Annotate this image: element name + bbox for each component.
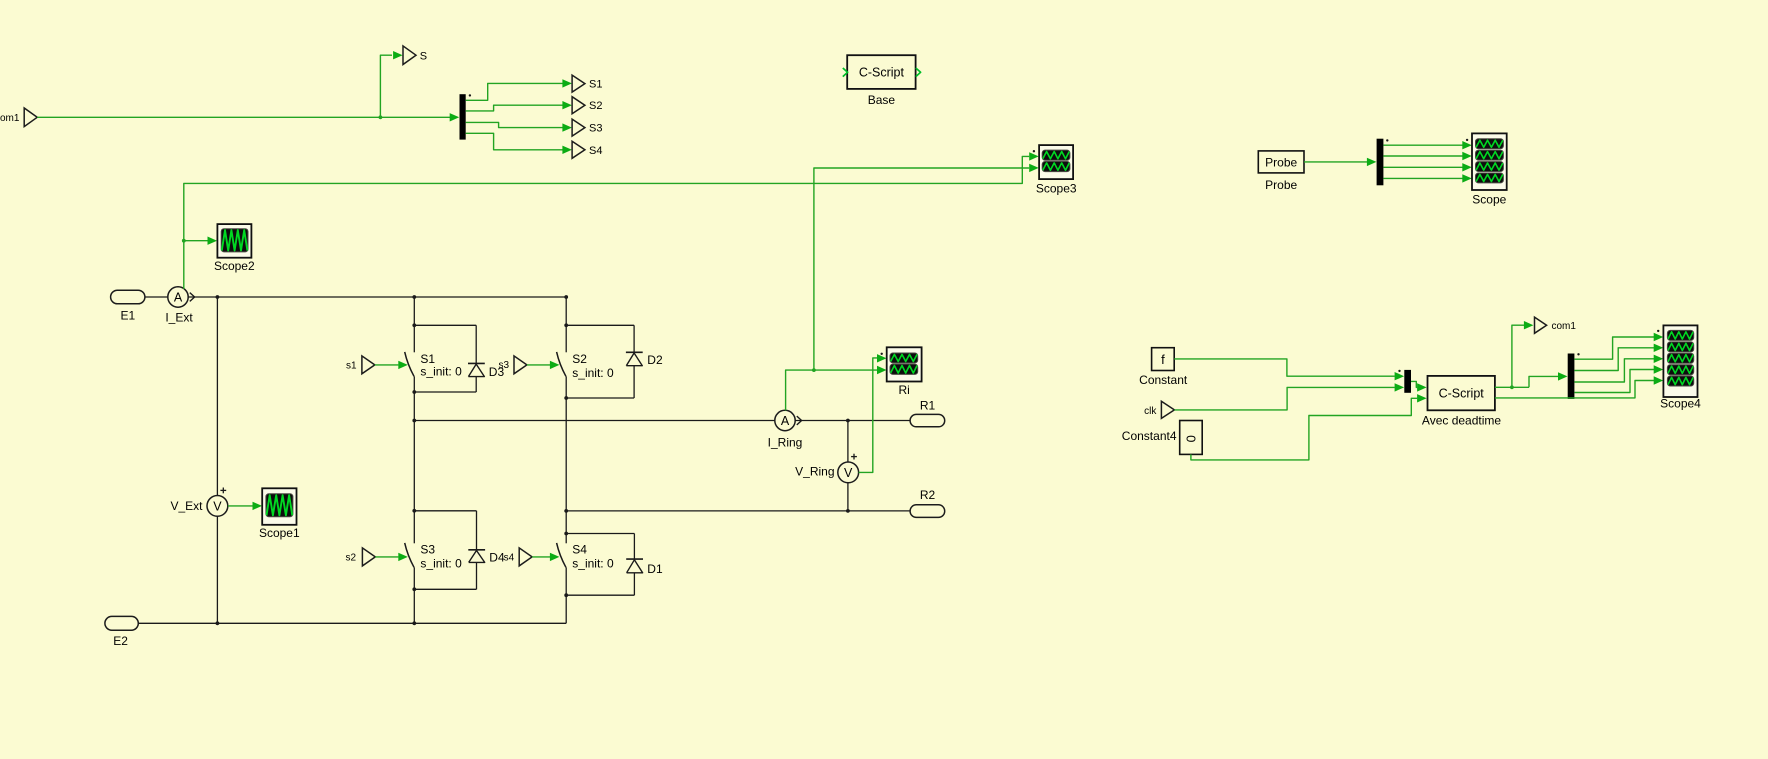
wire mux to C-Script xyxy=(1411,381,1427,391)
svg-text:D1: D1 xyxy=(647,562,663,576)
signal wire I_Ext up xyxy=(183,241,185,289)
node I_Ext signal junction xyxy=(182,239,186,243)
output port S1 xyxy=(572,75,602,92)
wire S2 bottom to R2 node xyxy=(565,398,567,534)
svg-text:D2: D2 xyxy=(647,353,663,367)
svg-text:V: V xyxy=(844,466,853,480)
scope Scope xyxy=(1466,133,1507,206)
svg-text:S4: S4 xyxy=(589,145,602,157)
svg-text:S3: S3 xyxy=(420,542,435,556)
wire middle rail left xyxy=(414,420,774,422)
wire V_Ring lower xyxy=(847,483,849,511)
svg-text:s1: s1 xyxy=(346,361,357,372)
svg-text:clk: clk xyxy=(1144,406,1157,417)
svg-text:Probe: Probe xyxy=(1265,178,1297,192)
C-Script block Base xyxy=(843,55,921,107)
wire Constant4 to C-Script xyxy=(1191,394,1427,460)
node junction on com1 wire xyxy=(379,115,383,119)
demux bar xyxy=(460,94,472,139)
wire mux to Scope in1 xyxy=(1383,141,1471,149)
node bottom rail x217 xyxy=(216,621,220,625)
svg-text:f: f xyxy=(1161,352,1165,367)
svg-text:S2: S2 xyxy=(589,100,602,112)
wire mux out3 to Scope4 xyxy=(1574,355,1663,382)
svg-text:Scope: Scope xyxy=(1472,193,1506,207)
output port S xyxy=(403,46,427,65)
svg-text:Scope1: Scope1 xyxy=(259,526,300,540)
svg-text:R1: R1 xyxy=(920,398,936,412)
switch S2 with diode D2 xyxy=(557,323,663,400)
signal wire V_Ring to Ri xyxy=(859,354,887,472)
wire S1 branch top xyxy=(413,297,415,325)
input port com1 (left edge) xyxy=(0,108,37,127)
wire S4 bottom to rail xyxy=(565,595,567,623)
port E1 xyxy=(111,290,145,322)
svg-text:S: S xyxy=(420,50,427,62)
wire S2 branch top xyxy=(565,297,567,325)
input port clk xyxy=(1144,401,1174,418)
input port s2 xyxy=(345,548,375,566)
wire to Scope2 xyxy=(184,237,217,245)
svg-text:E1: E1 xyxy=(120,308,135,322)
svg-text:Scope2: Scope2 xyxy=(214,259,255,273)
wire mux to Scope in4 xyxy=(1383,174,1471,182)
wire bottom rail xyxy=(138,622,566,624)
wire E1 to ammeter xyxy=(145,296,168,298)
ammeter I_Ring xyxy=(768,410,803,449)
signal wire I_Ring to Scope3 xyxy=(814,164,1039,370)
wire mux to Scope in2 xyxy=(1383,152,1471,160)
input port s3 xyxy=(499,356,527,374)
wire clk to mux xyxy=(1174,383,1404,410)
svg-text:S3: S3 xyxy=(589,123,602,135)
output port S3 xyxy=(572,119,602,136)
svg-text:s2: s2 xyxy=(345,553,356,564)
node middle rail x848 xyxy=(846,419,850,423)
node middle rail x414 xyxy=(412,419,416,423)
wire R2 rail xyxy=(566,510,910,512)
svg-text:A: A xyxy=(781,414,790,428)
svg-text:s_init: 0: s_init: 0 xyxy=(420,556,462,570)
wire s2 to switch xyxy=(375,553,408,561)
wire to com1 port xyxy=(1512,321,1534,387)
svg-text:I_Ext: I_Ext xyxy=(165,311,193,325)
svg-text:Constant: Constant xyxy=(1139,373,1188,387)
wire left leg lower xyxy=(216,516,218,623)
wire s3 to switch xyxy=(527,361,560,369)
input port s4 xyxy=(504,548,532,566)
svg-text:s_init: 0: s_init: 0 xyxy=(572,556,614,570)
input port s1 xyxy=(346,356,375,374)
wire S3 bottom to rail xyxy=(413,589,415,623)
wire branch to port S xyxy=(380,51,402,117)
node top rail x566 xyxy=(564,295,568,299)
wire mux to Scope in3 xyxy=(1383,163,1471,171)
svg-text:S2: S2 xyxy=(572,352,587,366)
svg-text:com1: com1 xyxy=(1552,321,1577,332)
port R2 xyxy=(910,488,945,517)
wire left leg upper xyxy=(216,297,218,495)
block Probe xyxy=(1258,151,1304,192)
wire C-Script out2 to Scope4 xyxy=(1495,376,1663,398)
wire demux out 1 to S1 xyxy=(466,79,572,100)
wire middle rail right xyxy=(795,420,910,422)
svg-text:V_Ring: V_Ring xyxy=(795,465,834,479)
mux bar Probe xyxy=(1377,139,1389,186)
svg-text:Avec deadtime: Avec deadtime xyxy=(1422,413,1501,427)
svg-text:C-Script: C-Script xyxy=(1439,387,1485,401)
C-Script block Avec deadtime xyxy=(1422,376,1501,427)
signal wire I_Ring up xyxy=(786,370,814,410)
scope Scope3 xyxy=(1033,145,1077,195)
switch S3 with diode D4 xyxy=(405,509,505,591)
wire mux out4 to Scope4 xyxy=(1574,365,1663,392)
wire s1 to switch xyxy=(375,361,408,369)
wire V_Ring upper xyxy=(847,421,849,463)
wire f to mux xyxy=(1174,359,1404,381)
scope Scope1 xyxy=(259,488,300,540)
svg-text:V_Ext: V_Ext xyxy=(170,499,203,513)
wire Probe to mux xyxy=(1304,158,1376,166)
port E2 xyxy=(105,616,138,648)
svg-text:R2: R2 xyxy=(920,488,936,502)
wire top rail xyxy=(188,296,566,298)
wire out1 to big mux xyxy=(1529,372,1568,387)
ammeter I_Ext xyxy=(165,287,194,325)
svg-text:V: V xyxy=(213,499,222,513)
node bottom rail x414 xyxy=(412,621,416,625)
svg-text:I_Ring: I_Ring xyxy=(768,436,803,450)
node R2 rail x566 xyxy=(564,509,568,513)
voltmeter V_Ext xyxy=(170,488,227,517)
wire I_Ring to Ri xyxy=(814,366,887,374)
constant block f xyxy=(1139,348,1188,387)
wire s4 to switch xyxy=(532,553,559,561)
svg-text:Constant4: Constant4 xyxy=(1122,429,1177,443)
mux bar Scope4 xyxy=(1568,353,1580,399)
node C-Script out1 junction xyxy=(1510,385,1514,389)
svg-text:S1: S1 xyxy=(589,79,602,91)
svg-text:A: A xyxy=(174,291,183,305)
node R2 rail x848 xyxy=(846,509,850,513)
svg-text:Base: Base xyxy=(868,93,896,107)
svg-text:Probe: Probe xyxy=(1265,156,1297,170)
node top rail x414 xyxy=(412,295,416,299)
svg-text:Scope3: Scope3 xyxy=(1036,181,1077,195)
signal wire V_Ext to Scope1 xyxy=(228,502,262,510)
signal wire I_Ext to Scope3 xyxy=(184,152,1039,241)
wire demux out 3 to S3 xyxy=(466,122,572,131)
node top rail x217 xyxy=(216,295,220,299)
wire com1 to demux xyxy=(37,113,459,121)
scope Scope4 xyxy=(1657,325,1701,410)
svg-text:0: 0 xyxy=(1184,435,1199,442)
voltmeter V_Ring xyxy=(795,454,858,483)
output port S4 xyxy=(572,141,602,158)
switch S4 with diode D1 xyxy=(557,532,663,598)
constant block Constant4 xyxy=(1122,421,1202,455)
svg-text:E2: E2 xyxy=(113,634,128,648)
node I_Ring signal junction xyxy=(812,368,816,372)
mux bar small xyxy=(1398,370,1411,393)
wire C-Script out1 xyxy=(1495,386,1529,388)
wire mid to S3 top xyxy=(413,421,415,511)
output port com1 xyxy=(1535,317,1577,333)
port R1 xyxy=(910,398,945,427)
svg-text:C-Script: C-Script xyxy=(859,66,905,80)
wire demux out 4 to S4 xyxy=(466,133,572,154)
svg-text:s3: s3 xyxy=(499,360,510,371)
svg-text:com1: com1 xyxy=(0,113,20,124)
wire S1-S3 mid xyxy=(413,392,415,421)
switch S1 with diode D3 xyxy=(405,323,505,394)
svg-text:s4: s4 xyxy=(504,553,515,564)
svg-text:Ri: Ri xyxy=(899,383,910,397)
scope Ri xyxy=(881,347,922,397)
wire mux out1 to Scope4 xyxy=(1574,333,1663,359)
svg-text:s_init: 0: s_init: 0 xyxy=(572,366,614,380)
scope Scope2 xyxy=(214,224,255,273)
svg-text:s_init: 0: s_init: 0 xyxy=(420,365,462,379)
svg-text:S4: S4 xyxy=(572,542,587,556)
svg-text:Scope4: Scope4 xyxy=(1660,396,1701,410)
wire demux out 2 to S2 xyxy=(466,101,572,111)
wire mux out2 to Scope4 xyxy=(1574,344,1663,371)
output port S2 xyxy=(572,97,602,114)
